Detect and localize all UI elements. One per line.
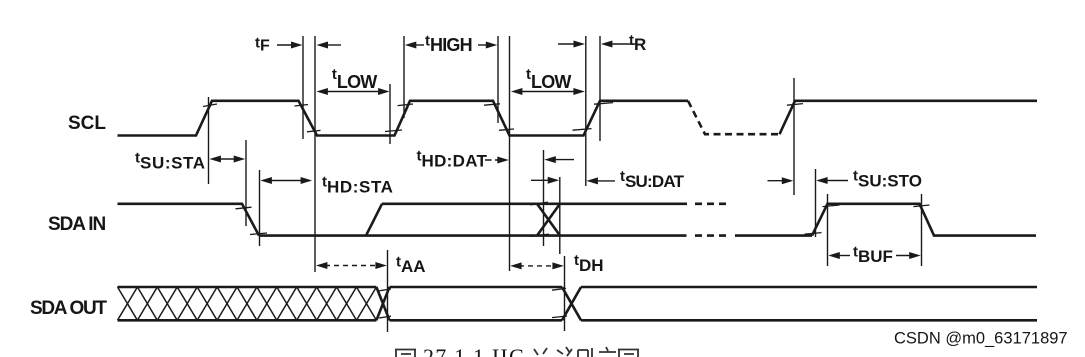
svg-text:tHD:STA: tHD:STA (322, 174, 394, 197)
tick SCL rise3 top (594, 103, 613, 105)
tSU:DAT right arrow pointing left (586, 177, 598, 184)
tick SDA OUT X1 bottom (379, 316, 391, 318)
SDA OUT top rail (118, 286, 1038, 289)
tBUF arrow (828, 252, 840, 259)
tick SCL fall2 top (484, 104, 500, 105)
SDA OUT hatch diagonals up (118, 287, 377, 320)
SDA IN crossover X (537, 204, 560, 236)
tDH arrow dashed (510, 262, 521, 269)
svg-text:SDA IN: SDA IN (48, 214, 105, 235)
SDA OUT bottom rail (118, 319, 1038, 322)
tick SDA fall1 bottom (250, 233, 267, 235)
measurement line tDH right x564.5 (564, 256, 566, 331)
tick SCL fall1 top (295, 105, 309, 107)
tick SCL fall1 bottom (307, 130, 321, 131)
tick SDA pulse fall top (914, 205, 930, 207)
measurement line tBUF left x827.5 (827, 194, 829, 266)
measurement line tBUF right x921.5 (921, 194, 923, 266)
measurement line tLOW right x390 (389, 84, 391, 144)
svg-text:tDH: tDH (574, 252, 604, 275)
measurement line tHD:STA left x259.5 (259, 170, 261, 246)
tick SCL rise4 top (787, 104, 803, 106)
tHIGH arrow (405, 42, 417, 49)
measurement line tHD:DAT right x543.5 (543, 150, 545, 246)
tick SDA pulse rise bottom (805, 233, 822, 235)
tF arrow left part (277, 44, 294, 46)
tF arrow right part (317, 42, 329, 49)
tick SDA fall1 top (236, 207, 252, 209)
measurement line tHIGH left x404 (403, 36, 405, 118)
SDA OUT transition X1 (376, 287, 389, 320)
measurement line tSU:STO left x815.5 (815, 169, 817, 237)
tHD:DAT right pair arrow pointing left (544, 156, 556, 163)
svg-text:27.1.1 IIC: 27.1.1 IIC (423, 344, 525, 357)
tick SDA OUT X1 top (379, 289, 391, 291)
tick SDA X bottom left (530, 234, 549, 236)
tick SCL rise2 top (398, 104, 414, 106)
SDA IN low rail (259, 234, 687, 237)
caption hanzi zong top strokes (534, 348, 547, 355)
tLOW arrow 2 (511, 88, 523, 95)
svg-text:tSU:STA: tSU:STA (135, 150, 206, 173)
svg-text:tSU:DAT: tSU:DAT (620, 168, 685, 191)
caption hanzi xu top strokes (599, 347, 616, 352)
tAA arrow dashed (316, 262, 328, 269)
tR arrow pointing left (601, 41, 613, 48)
tLOW arrow 1 (316, 88, 328, 95)
measurement line tall x315 (314, 36, 316, 272)
SDA IN low rail dashes (695, 234, 727, 237)
caption hanzi tu2 top strokes (618, 349, 639, 357)
SDA IN waveform left high and fall (118, 204, 260, 236)
measurement line tHIGH right x498 (497, 36, 499, 123)
SDA IN stop pulse (812, 204, 1036, 236)
svg-text:tHD:DAT: tHD:DAT (417, 148, 488, 171)
tSU:STA arrow (209, 156, 221, 163)
tick SCL fall2 bottom (499, 129, 514, 130)
tick SDA OUT X2 top (552, 288, 566, 290)
caption hanzi shi top strokes (578, 348, 592, 357)
SCL waveform solid part (118, 101, 689, 136)
measurement line tF left x303 (302, 36, 304, 139)
measurement line tSU:STA left x208.5 (208, 97, 210, 184)
measurement line tSU:DAT left x559.8 (559, 177, 561, 254)
SDA IN rise (366, 204, 382, 236)
svg-text:SDA OUT: SDA OUT (30, 298, 107, 319)
svg-text:tAA: tAA (396, 253, 426, 276)
caption hanzi tu1 top strokes (395, 349, 416, 357)
measurement line tR right x600 (599, 36, 601, 141)
SDA IN high rail dashes (695, 203, 727, 206)
SCL waveform dashed fall and low (688, 101, 780, 134)
tSU:DAT left arrow pointing right (531, 179, 552, 181)
svg-text:tBUF: tBUF (853, 243, 893, 266)
tick SCL rise2 bottom (385, 130, 402, 132)
svg-text:tLOW: tLOW (526, 66, 571, 92)
svg-text:SCL: SCL (68, 113, 106, 134)
svg-text:tF: tF (255, 35, 270, 55)
svg-text:tSU:STO: tSU:STO (853, 168, 922, 191)
measurement line tAA right x387.5 (387, 250, 389, 332)
caption hanzi xian top strokes (557, 347, 572, 356)
measurement line tSU:STA right x246 (245, 140, 247, 226)
svg-text:tHIGH: tHIGH (425, 33, 472, 56)
SDA OUT hatch diagonals down (118, 287, 377, 320)
tick SCL rise3 bottom (573, 129, 592, 131)
SDA IN low rail resume (735, 234, 812, 237)
tick SCL rise1 top (203, 104, 217, 107)
SDA IN high rail (382, 203, 687, 206)
svg-text:tR: tR (629, 32, 646, 54)
tHD:STA arrow (260, 177, 272, 184)
measurement line tall x509.5 (509, 36, 511, 271)
tick SDA pulse rise top (823, 205, 840, 207)
SDA OUT transition X2 (562, 287, 581, 320)
tick SDA OUT X2 bottom (552, 316, 567, 318)
svg-text:tLOW: tLOW (332, 66, 377, 92)
svg-text:CSDN @m0_63171897: CSDN @m0_63171897 (894, 330, 1068, 348)
measurement line x794 (793, 78, 795, 195)
tSU:STO arrow pointing left (816, 177, 828, 184)
measurement line tall x585.8 (585, 36, 587, 186)
tSU:STO pre arrow pointing right (768, 180, 785, 182)
tick SDA X top left (530, 202, 548, 205)
SCL waveform final rise and high (780, 101, 1038, 134)
tHD:DAT arrow dash and head (485, 159, 500, 161)
pre-tR arrow pointing right (558, 43, 576, 45)
